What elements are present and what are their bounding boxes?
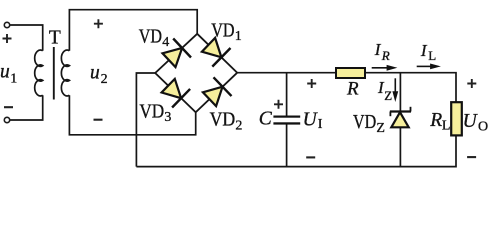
svg-text:VD: VD — [139, 102, 164, 123]
svg-text:VD: VD — [210, 110, 236, 131]
svg-text:R: R — [429, 110, 442, 131]
svg-text:2: 2 — [235, 119, 242, 134]
svg-text:3: 3 — [164, 110, 171, 125]
svg-text:C: C — [259, 109, 273, 130]
svg-text:U: U — [463, 111, 479, 132]
svg-text:Z: Z — [376, 121, 385, 136]
svg-text:VD: VD — [211, 20, 234, 41]
svg-text:u: u — [90, 62, 100, 83]
svg-text:T: T — [49, 27, 61, 48]
svg-text:I: I — [318, 117, 323, 132]
svg-text:u: u — [0, 61, 10, 82]
svg-text:VD: VD — [139, 26, 162, 47]
svg-text:1: 1 — [235, 29, 242, 44]
svg-text:4: 4 — [162, 35, 169, 50]
svg-text:R: R — [346, 78, 359, 99]
svg-text:2: 2 — [101, 72, 108, 87]
svg-text:L: L — [442, 119, 451, 134]
svg-text:O: O — [478, 119, 488, 134]
svg-text:Z: Z — [384, 88, 392, 103]
svg-text:L: L — [428, 48, 436, 63]
svg-text:1: 1 — [10, 71, 17, 86]
svg-text:U: U — [303, 110, 319, 131]
svg-text:VD: VD — [353, 112, 376, 133]
svg-text:R: R — [381, 48, 390, 63]
